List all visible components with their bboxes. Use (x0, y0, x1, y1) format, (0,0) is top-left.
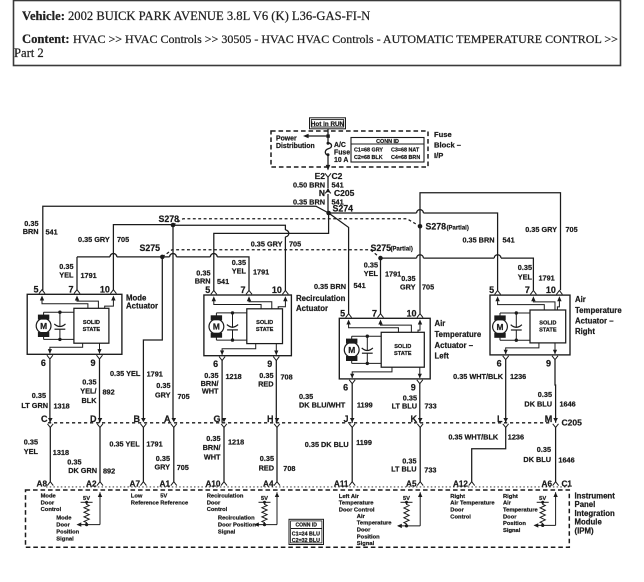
svg-text:Temperature: Temperature (575, 306, 622, 315)
air temp actuator left capacitor (366, 336, 368, 351)
wire mode pin 10 GRY 705 up to S278 (113, 225, 173, 291)
wire GRY 705 riser from S278 partial to air temp right pin 10 (420, 193, 561, 291)
svg-text:H: H (267, 414, 274, 424)
svg-text:1646: 1646 (560, 399, 576, 408)
svg-text:(Partial): (Partial) (447, 225, 469, 231)
svg-text:10 A: 10 A (334, 157, 348, 164)
svg-text:7: 7 (240, 285, 245, 295)
svg-text:Mode: Mode (56, 516, 72, 522)
svg-text:Signal: Signal (357, 541, 375, 547)
svg-text:Module: Module (575, 518, 603, 527)
air temp actuator left internal wire pin5 to solid state (346, 320, 350, 325)
air temp actuator left internal wire pin7 to solid state (378, 320, 382, 325)
svg-text:C1: C1 (562, 480, 573, 489)
svg-text:7: 7 (68, 284, 73, 294)
svg-text:Control: Control (450, 514, 471, 520)
connector N C205 (326, 188, 331, 192)
svg-text:Recirculation: Recirculation (296, 294, 346, 303)
wire D to A2 DK GRN 892 (99, 427, 101, 482)
fuse F1 A/C 10A (325, 143, 331, 155)
svg-text:RED: RED (259, 464, 274, 473)
svg-text:Left: Left (435, 352, 450, 361)
recirculation actuator pin 7 (246, 290, 252, 294)
svg-text:S274: S274 (333, 204, 354, 214)
in-line connector L (503, 418, 508, 422)
svg-text:Temperature: Temperature (339, 501, 374, 507)
svg-text:Vehicle:: Vehicle: (22, 9, 65, 23)
svg-text:A/C: A/C (334, 142, 346, 149)
wire K to A5 LT BLU 733 (419, 427, 421, 482)
in-line connector K (418, 418, 423, 422)
mode actuator pin 9 (97, 355, 103, 359)
svg-text:A6: A6 (542, 480, 553, 489)
svg-text:5: 5 (33, 284, 38, 294)
svg-text:SOLID: SOLID (256, 320, 273, 326)
svg-text:M: M (497, 322, 504, 332)
svg-text:Position: Position (56, 529, 79, 535)
svg-text:0.35 BRN: 0.35 BRN (293, 198, 325, 207)
air temp actuator right internal wire pin5 to solid state (495, 296, 499, 301)
in-line connector row dashed line (48, 422, 552, 424)
air temp actuator right box (490, 295, 570, 355)
mode actuator pin 5 (39, 290, 45, 294)
svg-text:M: M (213, 322, 220, 332)
air temp actuator right pin 9 (552, 356, 558, 360)
in-line connector J (350, 418, 355, 422)
svg-text:Door: Door (357, 528, 371, 534)
svg-text:Air: Air (357, 514, 366, 520)
label Hot in RUN (310, 118, 346, 129)
svg-text:S278: S278 (426, 222, 447, 232)
IPM CONN ID table (289, 519, 324, 544)
svg-text:Position: Position (503, 521, 526, 527)
svg-text:STATE: STATE (256, 327, 274, 333)
air temp actuator right pin 7 (530, 291, 536, 295)
svg-text:6: 6 (41, 358, 46, 368)
svg-text:1791: 1791 (539, 273, 555, 282)
recirculation actuator pin 9 (273, 357, 279, 361)
IPM dashed box (26, 490, 570, 547)
svg-text:5: 5 (205, 285, 210, 295)
fuse block CONN ID table (351, 138, 424, 163)
svg-text:9: 9 (546, 358, 551, 368)
svg-text:705: 705 (422, 282, 434, 291)
in-line connector D (98, 418, 103, 422)
svg-text:Temperature: Temperature (435, 330, 482, 339)
wire S275 partial down to air temp left pin 7 YEL 1791 (380, 258, 382, 314)
svg-text:L: L (497, 414, 503, 424)
svg-text:Right: Right (450, 494, 465, 500)
wire B to A7 YEL 1791 (142, 427, 144, 482)
mode actuator internal wire solid state to pin 9 (99, 343, 101, 353)
wire H to A4 RED 708 (276, 427, 278, 482)
svg-text:C2=68 BLK: C2=68 BLK (354, 155, 383, 161)
wire mode pin 7 YEL 1791 to S275 and recirc pin 7 (77, 256, 110, 258)
svg-text:C1=24 BLU: C1=24 BLU (292, 531, 320, 537)
svg-text:Door: Door (450, 508, 464, 514)
svg-text:A7: A7 (130, 480, 141, 489)
svg-text:708: 708 (283, 464, 295, 473)
wire S274 diagonal to air temp left pin 5 BRN 541 (329, 213, 349, 314)
svg-text:Recirculation: Recirculation (218, 516, 255, 522)
svg-text:Air: Air (435, 319, 446, 328)
svg-text:1791: 1791 (146, 439, 162, 448)
svg-text:Signal: Signal (503, 528, 521, 534)
air temp actuator left pin 6 (349, 380, 355, 384)
svg-text:1199: 1199 (356, 438, 372, 447)
svg-text:Content:: Content: (22, 32, 70, 46)
svg-text:705: 705 (289, 240, 301, 249)
svg-text:10: 10 (406, 308, 416, 318)
svg-text:6: 6 (343, 382, 348, 392)
svg-text:WHT: WHT (204, 453, 221, 462)
in-line connector C (48, 418, 53, 422)
svg-text:1236: 1236 (508, 433, 524, 442)
IPM pin A5 (417, 482, 423, 486)
svg-text:Right: Right (503, 494, 518, 500)
svg-text:Actuator –: Actuator – (435, 341, 474, 350)
svg-text:Air Temperature: Air Temperature (450, 501, 495, 507)
svg-text:Control: Control (207, 507, 228, 513)
svg-text:I/P: I/P (434, 151, 443, 160)
svg-text:GRY: GRY (154, 463, 170, 472)
wire L to A12 WHT/BLK 1236 (472, 427, 506, 482)
svg-text:G: G (213, 414, 220, 424)
svg-text:Signal: Signal (218, 529, 236, 535)
svg-text:Left Air: Left Air (339, 494, 360, 500)
IPM connector dotted line (46, 486, 569, 488)
air temp actuator right capacitor (515, 313, 517, 328)
air temp actuator left solid state module (381, 332, 424, 367)
svg-text:Recirculation: Recirculation (207, 493, 244, 499)
IPM pin A6 (553, 482, 559, 486)
svg-text:YEL: YEL (364, 269, 379, 278)
recirculation actuator solid state module (247, 309, 283, 344)
svg-text:1646: 1646 (558, 456, 574, 465)
svg-text:Instrument: Instrument (575, 491, 616, 500)
recirculation actuator pin 6 (219, 357, 225, 361)
svg-text:GRY: GRY (155, 391, 171, 400)
svg-text:Actuator: Actuator (126, 302, 158, 311)
wire A to A1 GRY 705 (173, 427, 175, 482)
air temp actuator left internal wire solid state to pin 6 (352, 367, 392, 374)
svg-text:892: 892 (103, 467, 115, 476)
wire M to A6 DK BLU 1646 (555, 427, 557, 482)
recirculation actuator internal wire solid state to pin10 (283, 296, 287, 301)
svg-text:YEL: YEL (232, 266, 247, 275)
svg-text:SOLID: SOLID (539, 320, 556, 326)
svg-text:M: M (348, 345, 355, 355)
svg-text:YEL: YEL (518, 273, 533, 282)
svg-text:STATE: STATE (394, 351, 412, 357)
svg-text:0.35: 0.35 (518, 263, 532, 272)
svg-text:9: 9 (90, 358, 95, 368)
svg-text:6: 6 (497, 358, 502, 368)
svg-text:C3=68 NAT: C3=68 NAT (391, 147, 420, 153)
recirculation actuator box (204, 295, 292, 356)
svg-text:1791: 1791 (253, 267, 269, 276)
svg-text:DK BLU/WHT: DK BLU/WHT (299, 400, 346, 409)
svg-text:S278: S278 (158, 214, 179, 224)
svg-text:541: 541 (354, 281, 366, 290)
recirculation actuator pin 5 (211, 290, 217, 294)
air temp actuator right internal wire pin7 to solid state (531, 296, 535, 301)
svg-text:Distribution: Distribution (276, 143, 315, 150)
wire S278 partial down to air temp left pin 10 GRY 705 (419, 226, 421, 314)
svg-text:0.35: 0.35 (206, 434, 220, 443)
recirculation actuator internal rails (216, 312, 246, 314)
mode actuator internal wire pin5 to solid state (40, 296, 44, 301)
svg-text:HVAC >> HVAC Controls >> 30505: HVAC >> HVAC Controls >> 30505 - HVAC HV… (73, 32, 618, 46)
svg-text:708: 708 (281, 372, 293, 381)
splice S278 partial (418, 224, 423, 229)
svg-text:0.35 YEL: 0.35 YEL (110, 369, 141, 378)
svg-text:705: 705 (117, 235, 129, 244)
svg-text:C: C (41, 414, 48, 424)
svg-text:7: 7 (372, 308, 377, 318)
svg-text:9: 9 (267, 359, 272, 369)
svg-text:Low: Low (131, 493, 143, 499)
svg-text:Control: Control (41, 507, 62, 513)
svg-text:1318: 1318 (54, 401, 70, 410)
svg-text:1236: 1236 (510, 372, 526, 381)
svg-text:1791: 1791 (147, 370, 163, 379)
svg-text:541: 541 (217, 277, 229, 286)
svg-text:733: 733 (425, 401, 437, 410)
wire ATL pin9 LT BLU 733 to connector K (419, 384, 421, 423)
mode actuator internal wire pin7 to solid state (75, 296, 79, 301)
svg-text:Reference: Reference (131, 500, 160, 506)
svg-text:Position: Position (357, 534, 380, 540)
svg-text:S275: S275 (139, 243, 160, 253)
svg-text:0.35 WHT/BLK: 0.35 WHT/BLK (453, 372, 504, 381)
air temp actuator right pin 5 (495, 291, 501, 295)
svg-text:WHT: WHT (202, 386, 219, 395)
in-line connector M (553, 418, 558, 422)
wire S278 to recirculation pin 10 GRY 705 (173, 225, 285, 230)
IPM pin A8 (47, 482, 53, 486)
mode actuator internal wire solid state to pin 6 (50, 343, 83, 349)
svg-text:705: 705 (177, 463, 189, 472)
wire power distribution arrow (305, 135, 328, 137)
svg-text:K: K (411, 414, 418, 424)
svg-text:0.35 YEL: 0.35 YEL (109, 439, 140, 448)
svg-text:S275: S275 (371, 243, 392, 253)
recirculation actuator internal wire solid state to pin 9 (275, 344, 277, 355)
recirculation actuator internal wire solid state to pin 6 (222, 344, 256, 351)
svg-text:CONN ID: CONN ID (295, 523, 317, 529)
wire S274 right branch BRN 541 to air temp right pin 5 (329, 212, 417, 214)
svg-text:1791: 1791 (81, 271, 97, 280)
wire mode pin6 LT GRN 1318 to connector C (49, 359, 51, 423)
mode actuator pin 7 (74, 290, 80, 294)
svg-text:DK BLU: DK BLU (524, 399, 552, 408)
air temp actuator left internal wire solid state to pin10 (418, 320, 422, 325)
mode actuator internal rails (44, 311, 74, 313)
recirculation actuator internal wire pin7 to solid state (247, 296, 251, 301)
svg-text:Actuator –: Actuator – (575, 317, 614, 326)
svg-text:1218: 1218 (226, 372, 242, 381)
svg-text:D: D (90, 414, 97, 424)
in-line connector G (222, 418, 227, 422)
svg-text:Panel: Panel (575, 500, 596, 509)
svg-text:5: 5 (340, 308, 345, 318)
svg-text:B: B (134, 414, 141, 424)
wire recirc pin9 RED 708 to connector H (275, 360, 277, 423)
svg-text:Air: Air (575, 295, 586, 304)
wire recirc pin6 BRN/WHT 1218 to connector G (221, 360, 223, 423)
splice S275 (160, 255, 165, 260)
svg-text:0.35 GRY: 0.35 GRY (251, 240, 283, 249)
header box (14, 1, 621, 66)
svg-text:Temperature: Temperature (503, 508, 538, 514)
svg-text:A: A (164, 414, 171, 424)
svg-text:C4=68 BRN: C4=68 BRN (391, 155, 420, 161)
splice S278 (171, 223, 176, 228)
svg-text:Block –: Block – (434, 141, 461, 150)
svg-text:Reference: Reference (160, 500, 189, 506)
svg-text:10: 10 (546, 285, 556, 295)
svg-text:SOLID: SOLID (394, 344, 411, 350)
wire ATR pin6 WHT/BLK 1236 to connector L (505, 360, 507, 423)
svg-text:1199: 1199 (357, 400, 373, 409)
wire S275 drop to connector B YEL 1791 (143, 257, 162, 419)
air temp actuator right pin 6 (503, 356, 509, 360)
recirculation actuator pin 10 (282, 290, 288, 294)
svg-text:C205: C205 (562, 418, 583, 428)
mode actuator capacitor (59, 312, 61, 327)
svg-text:0.35 BRN: 0.35 BRN (314, 282, 346, 291)
svg-text:Fuse: Fuse (434, 130, 452, 139)
IPM pin A12 (469, 482, 475, 486)
svg-text:YEL: YEL (24, 447, 39, 456)
svg-text:892: 892 (103, 388, 115, 397)
svg-text:10: 10 (272, 285, 282, 295)
svg-text:SOLID: SOLID (83, 320, 100, 326)
svg-text:E2: E2 (315, 171, 326, 181)
wire S274 drop to recirculation pin 5 BRN 541 (214, 213, 329, 291)
svg-text:J: J (343, 414, 348, 424)
svg-text:A8: A8 (37, 480, 48, 489)
svg-text:5: 5 (489, 285, 494, 295)
IPM pin A1 (171, 482, 177, 486)
svg-text:(Partial): (Partial) (391, 247, 413, 253)
svg-text:A1: A1 (160, 480, 171, 489)
svg-text:STATE: STATE (83, 327, 101, 333)
connector E2/C2 (325, 173, 331, 177)
svg-text:7: 7 (525, 285, 530, 295)
svg-text:Hot in RUN: Hot in RUN (311, 121, 345, 128)
svg-text:LT BLU: LT BLU (391, 465, 416, 474)
air temp actuator left pin 9 (417, 380, 423, 384)
wire G to A10 BRN/WHT 1218 (223, 427, 225, 482)
svg-text:0.35: 0.35 (260, 454, 274, 463)
svg-text:Door: Door (207, 500, 221, 506)
svg-text:Mode: Mode (41, 493, 57, 499)
wire C to A8 YEL 1318 (49, 427, 51, 482)
mode actuator internal wire solid state to pin10 (111, 296, 115, 301)
svg-text:GRY: GRY (400, 282, 416, 291)
fuse block dashed box (271, 131, 428, 167)
svg-text:0.35: 0.35 (32, 391, 46, 400)
air temp actuator right pin 10 (556, 291, 562, 295)
svg-text:RED: RED (258, 379, 273, 388)
svg-text:Right: Right (575, 327, 595, 336)
svg-text:0.35: 0.35 (538, 390, 552, 399)
svg-text:705: 705 (178, 392, 190, 401)
svg-text:Temperature: Temperature (357, 521, 392, 527)
svg-text:5V: 5V (160, 493, 167, 499)
air temp actuator left motor M (344, 342, 359, 357)
splice S274 (326, 211, 331, 216)
svg-text:BLK: BLK (82, 396, 98, 405)
svg-text:A2: A2 (86, 480, 97, 489)
svg-text:Power: Power (276, 135, 297, 142)
wire J to A11 DK BLU 1199 (351, 427, 353, 482)
mode actuator pin 10 (110, 290, 116, 294)
svg-text:A10: A10 (205, 480, 220, 489)
svg-text:A4: A4 (263, 480, 274, 489)
svg-text:0.35: 0.35 (156, 381, 170, 390)
svg-text:(IPM): (IPM) (575, 526, 594, 535)
wire S275 partial to air temp right pin 7 YEL 1791 (381, 257, 417, 259)
air temp actuator left box (339, 318, 430, 379)
svg-text:A11: A11 (334, 480, 349, 489)
svg-text:0.35 GRY: 0.35 GRY (525, 225, 557, 234)
air temp actuator left pin 5 (346, 314, 352, 318)
svg-text:BRN/: BRN/ (203, 443, 221, 452)
wire fuse to connector C2 (327, 155, 329, 170)
svg-text:705: 705 (566, 225, 578, 234)
air temp actuator left pin 7 (378, 314, 384, 318)
svg-text:CONN ID: CONN ID (376, 139, 399, 145)
mode actuator pin 6 (47, 355, 53, 359)
svg-text:0.35 DK BLU: 0.35 DK BLU (305, 440, 349, 449)
air temp actuator right internal wire solid state to pin 6 (506, 343, 539, 350)
wire ATR pin9 DK BLU 1646 to connector M (554, 360, 557, 423)
svg-text:Door Control: Door Control (339, 508, 375, 514)
svg-text:Integration: Integration (575, 509, 616, 518)
svg-text:YEL/: YEL/ (80, 387, 96, 396)
svg-text:10: 10 (100, 284, 110, 294)
IPM pin A11 (349, 482, 355, 486)
svg-text:0.35: 0.35 (537, 445, 551, 454)
recirculation actuator motor M (209, 319, 224, 334)
svg-text:Door: Door (56, 523, 70, 529)
svg-text:0.35 BRN: 0.35 BRN (462, 236, 494, 245)
air temp actuator left internal rails (352, 335, 382, 337)
svg-text:0.35 GRY: 0.35 GRY (78, 235, 110, 244)
svg-text:M: M (545, 414, 553, 424)
IPM pin A2 (97, 482, 103, 486)
wire 0.35 BRN 541 to S274 (327, 194, 329, 213)
svg-text:Fuse: Fuse (334, 150, 350, 157)
svg-text:1318: 1318 (53, 448, 69, 457)
wire S278 down to connector A GRY 705 (172, 225, 174, 419)
svg-text:A5: A5 (406, 480, 417, 489)
svg-text:9: 9 (411, 382, 416, 392)
svg-text:STATE: STATE (539, 327, 557, 333)
svg-text:1218: 1218 (228, 438, 244, 447)
mode actuator motor M (36, 318, 51, 333)
svg-text:Air: Air (503, 501, 512, 507)
svg-text:BRN: BRN (23, 227, 39, 236)
wire from Hot in RUN into fuse block (327, 129, 329, 143)
svg-text:0.35: 0.35 (24, 437, 38, 446)
svg-text:Part 2: Part 2 (14, 46, 44, 60)
splice S275 partial (378, 256, 383, 261)
svg-text:1791: 1791 (385, 269, 401, 278)
